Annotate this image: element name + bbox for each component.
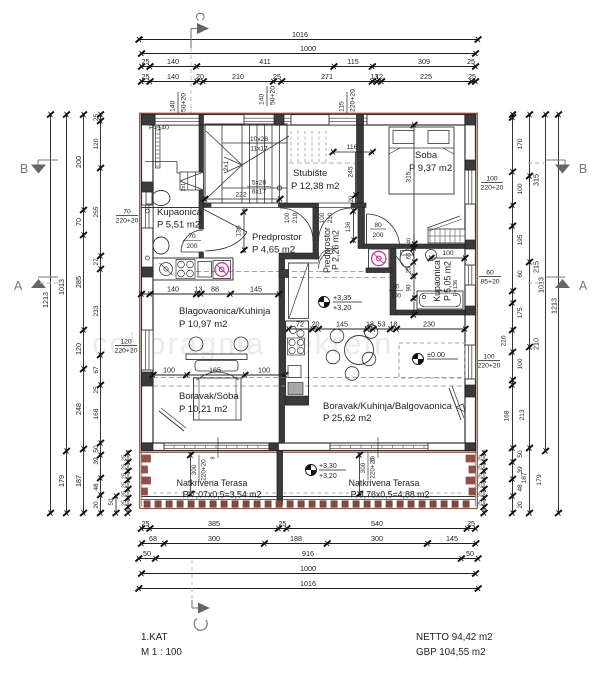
svg-text:255: 255 [93, 206, 100, 217]
svg-text:53: 53 [378, 320, 386, 329]
svg-text:100: 100 [442, 250, 454, 257]
svg-text:P 4,65 m2: P 4,65 m2 [252, 245, 295, 256]
svg-text:+3,20: +3,20 [333, 303, 351, 312]
svg-text:115: 115 [347, 57, 358, 66]
svg-text:P 9,76x0,5=4,88 m2: P 9,76x0,5=4,88 m2 [351, 490, 430, 500]
svg-text:50: 50 [466, 549, 474, 558]
svg-text:50: 50 [108, 498, 115, 505]
svg-text:120: 120 [120, 339, 132, 346]
svg-text:300: 300 [191, 464, 198, 475]
svg-text:25: 25 [142, 57, 150, 66]
svg-text:P 25,62 m2: P 25,62 m2 [323, 413, 371, 424]
svg-text:222: 222 [235, 192, 247, 199]
svg-text:P 7,07x0,5=3,54 m2: P 7,07x0,5=3,54 m2 [183, 490, 262, 500]
svg-text:25: 25 [122, 473, 128, 479]
svg-text:411: 411 [259, 57, 270, 66]
svg-text:200: 200 [372, 232, 383, 239]
svg-text:115: 115 [339, 101, 346, 112]
svg-text:145: 145 [446, 534, 458, 543]
svg-text:285: 285 [74, 276, 83, 288]
svg-text:100: 100 [319, 212, 326, 223]
svg-text:200: 200 [391, 294, 402, 300]
svg-text:90: 90 [406, 284, 413, 291]
svg-text:NETTO 94,42 m2: NETTO 94,42 m2 [416, 632, 493, 643]
svg-text:88: 88 [211, 285, 219, 294]
svg-text:1016: 1016 [292, 30, 308, 39]
svg-text:1213: 1213 [41, 292, 50, 308]
svg-text:179: 179 [57, 475, 66, 487]
svg-text:25: 25 [467, 57, 475, 66]
svg-text:Blagovaonica/Kuhinja: Blagovaonica/Kuhinja [179, 306, 271, 317]
svg-text:170: 170 [517, 138, 524, 149]
svg-text:GBP 104,55 m2: GBP 104,55 m2 [416, 647, 486, 658]
svg-text:39: 39 [93, 457, 100, 465]
svg-text:187: 187 [521, 472, 528, 484]
svg-text:18: 18 [390, 320, 398, 329]
svg-text:1016: 1016 [300, 579, 316, 588]
svg-text:60: 60 [517, 270, 524, 278]
svg-text:11x17: 11x17 [250, 146, 268, 153]
svg-text:210: 210 [327, 212, 334, 223]
svg-text:25: 25 [478, 500, 484, 506]
svg-text:233: 233 [93, 305, 100, 316]
svg-text:300: 300 [360, 462, 367, 473]
svg-text:Boravak/Soba: Boravak/Soba [179, 391, 239, 402]
svg-text:70: 70 [393, 285, 400, 291]
svg-text:P 9,37 m2: P 9,37 m2 [409, 163, 452, 174]
svg-text:100: 100 [258, 366, 270, 375]
svg-text:271: 271 [321, 72, 333, 81]
svg-text:385: 385 [208, 519, 220, 528]
svg-text:140: 140 [167, 285, 179, 294]
svg-text:220+20: 220+20 [481, 185, 504, 192]
svg-text:50+20: 50+20 [270, 86, 277, 105]
svg-text:Natkrivena Terasa: Natkrivena Terasa [349, 478, 420, 488]
svg-text:140: 140 [259, 93, 266, 105]
svg-text:Boravak/Kuhinja/Balgovaonica: Boravak/Kuhinja/Balgovaonica [323, 401, 453, 412]
svg-text:25: 25 [467, 519, 475, 528]
svg-text:25: 25 [478, 473, 484, 479]
svg-text:20: 20 [196, 72, 204, 81]
svg-text:220+20: 220+20 [370, 457, 377, 479]
svg-text:145: 145 [336, 320, 348, 329]
svg-text:230: 230 [423, 320, 435, 329]
svg-text:120: 120 [74, 343, 83, 355]
svg-text:20: 20 [517, 501, 524, 509]
svg-text:P 5,51 m2: P 5,51 m2 [157, 220, 200, 231]
svg-text:C: C [193, 12, 207, 21]
svg-text:215: 215 [532, 261, 541, 273]
svg-text:70: 70 [188, 233, 196, 240]
svg-text:300: 300 [208, 534, 220, 543]
svg-text:120: 120 [93, 138, 100, 149]
svg-text:B: B [579, 162, 587, 176]
svg-text:B: B [20, 162, 28, 176]
svg-text:220+20: 220+20 [350, 89, 357, 112]
svg-text:A: A [579, 279, 588, 293]
svg-text:50: 50 [143, 549, 151, 558]
svg-text:195: 195 [517, 234, 524, 245]
svg-text:25: 25 [142, 519, 150, 528]
svg-text:25: 25 [273, 72, 281, 81]
svg-text:188: 188 [290, 534, 302, 543]
svg-text:48: 48 [517, 484, 524, 492]
svg-text:65: 65 [406, 252, 413, 259]
svg-text:25: 25 [122, 491, 128, 497]
svg-text:40: 40 [407, 238, 413, 244]
svg-text:140: 140 [167, 57, 179, 66]
svg-text:245: 245 [348, 166, 355, 178]
svg-text:25: 25 [279, 519, 287, 528]
svg-text:210: 210 [501, 335, 508, 346]
svg-text:175: 175 [517, 307, 524, 318]
svg-text:25: 25 [468, 72, 476, 81]
svg-text:300: 300 [371, 534, 383, 543]
svg-text:+3,35: +3,35 [333, 293, 351, 302]
svg-text:A: A [14, 279, 23, 293]
svg-text:25: 25 [93, 114, 100, 122]
svg-text:13: 13 [195, 285, 203, 294]
svg-text:67: 67 [93, 366, 100, 374]
svg-text:20: 20 [349, 195, 355, 202]
svg-text:116: 116 [347, 144, 358, 151]
svg-text:Soba: Soba [415, 150, 438, 161]
svg-text:140: 140 [170, 100, 177, 112]
svg-text:70: 70 [123, 209, 131, 216]
svg-text:200: 200 [74, 156, 83, 168]
svg-text:5x28: 5x28 [252, 180, 267, 187]
svg-text:25: 25 [93, 386, 100, 394]
svg-text:1000: 1000 [300, 564, 316, 573]
svg-text:25: 25 [478, 482, 484, 488]
svg-text:50: 50 [517, 450, 524, 458]
svg-text:±0.00: ±0.00 [427, 350, 445, 359]
svg-text:100: 100 [517, 183, 524, 194]
svg-text:916: 916 [302, 549, 314, 558]
svg-text:100: 100 [486, 176, 498, 183]
svg-text:48: 48 [93, 483, 100, 491]
svg-text:25: 25 [478, 464, 484, 470]
svg-text:8: 8 [211, 457, 217, 460]
svg-text:100: 100 [163, 366, 175, 375]
svg-text:200: 200 [186, 243, 197, 250]
svg-text:+3,20: +3,20 [319, 473, 337, 480]
svg-text:315: 315 [532, 174, 541, 186]
svg-text:2x1: 2x1 [181, 183, 187, 191]
svg-text:1013: 1013 [57, 279, 66, 295]
svg-text:Kupaonica: Kupaonica [432, 260, 442, 302]
svg-text:12: 12 [375, 72, 383, 81]
svg-text:540: 540 [371, 519, 383, 528]
svg-text:145: 145 [250, 285, 262, 294]
svg-text:M 1 : 100: M 1 : 100 [141, 647, 182, 658]
svg-text:85+20: 85+20 [480, 279, 499, 286]
svg-text:210: 210 [292, 212, 299, 223]
svg-text:248: 248 [74, 403, 83, 415]
svg-text:1013: 1013 [537, 277, 546, 293]
svg-text:210: 210 [232, 72, 244, 81]
svg-text:Natkrivena Terasa: Natkrivena Terasa [177, 478, 248, 488]
svg-text:1.KAT: 1.KAT [141, 632, 168, 643]
svg-text:27: 27 [93, 258, 100, 266]
svg-text:136: 136 [345, 221, 352, 232]
svg-text:Predprostor: Predprostor [252, 232, 302, 243]
svg-text:168: 168 [93, 408, 100, 419]
svg-text:P 5,05 m2: P 5,05 m2 [443, 261, 453, 301]
svg-text:213: 213 [519, 409, 526, 421]
svg-text:60: 60 [486, 270, 494, 277]
svg-text:220+20: 220+20 [116, 218, 139, 225]
svg-text:309: 309 [418, 57, 430, 66]
svg-text:25: 25 [122, 500, 128, 506]
svg-text:P 2,26 m2: P 2,26 m2 [331, 230, 341, 270]
svg-text:P 10,21 m2: P 10,21 m2 [179, 404, 227, 415]
svg-text:100: 100 [284, 212, 291, 223]
svg-text:210: 210 [532, 338, 541, 350]
svg-text:25: 25 [478, 491, 484, 497]
svg-text:179: 179 [536, 474, 543, 486]
svg-text:187: 187 [74, 475, 83, 487]
svg-text:6x17: 6x17 [252, 189, 267, 196]
svg-text:140: 140 [167, 72, 179, 81]
svg-text:220+20: 220+20 [115, 348, 138, 355]
svg-text:68: 68 [149, 534, 157, 543]
svg-text:Stubište: Stubište [293, 168, 327, 179]
svg-text:1213: 1213 [550, 298, 559, 314]
svg-text:20: 20 [93, 501, 100, 509]
svg-text:25: 25 [122, 482, 128, 488]
svg-text:220+20: 220+20 [478, 363, 501, 370]
svg-text:50: 50 [93, 445, 100, 453]
svg-text:25: 25 [122, 455, 128, 461]
svg-text:80: 80 [374, 222, 382, 229]
svg-text:225: 225 [420, 72, 432, 81]
svg-text:Kupaonica: Kupaonica [157, 207, 203, 218]
svg-text:10x28: 10x28 [250, 136, 268, 143]
svg-text:P=140: P=140 [149, 125, 169, 132]
svg-text:20: 20 [312, 320, 320, 329]
svg-text:25: 25 [142, 72, 150, 81]
svg-text:+3,30: +3,30 [319, 463, 337, 470]
svg-text:25: 25 [478, 455, 484, 461]
svg-text:25: 25 [122, 464, 128, 470]
svg-text:168: 168 [504, 410, 511, 421]
svg-text:P 12,38 m2: P 12,38 m2 [291, 181, 339, 192]
svg-text:70: 70 [74, 218, 83, 226]
svg-text:100: 100 [517, 358, 524, 369]
svg-text:136: 136 [236, 225, 243, 237]
svg-text:coltoragma nekretn: coltoragma nekretn [92, 326, 393, 361]
svg-text:100: 100 [483, 354, 495, 361]
svg-text:1000: 1000 [300, 44, 316, 53]
svg-text:18: 18 [366, 320, 374, 329]
svg-text:2x1: 2x1 [223, 160, 230, 171]
svg-text:50+20: 50+20 [181, 93, 188, 112]
svg-text:P 10,97 m2: P 10,97 m2 [179, 319, 227, 330]
